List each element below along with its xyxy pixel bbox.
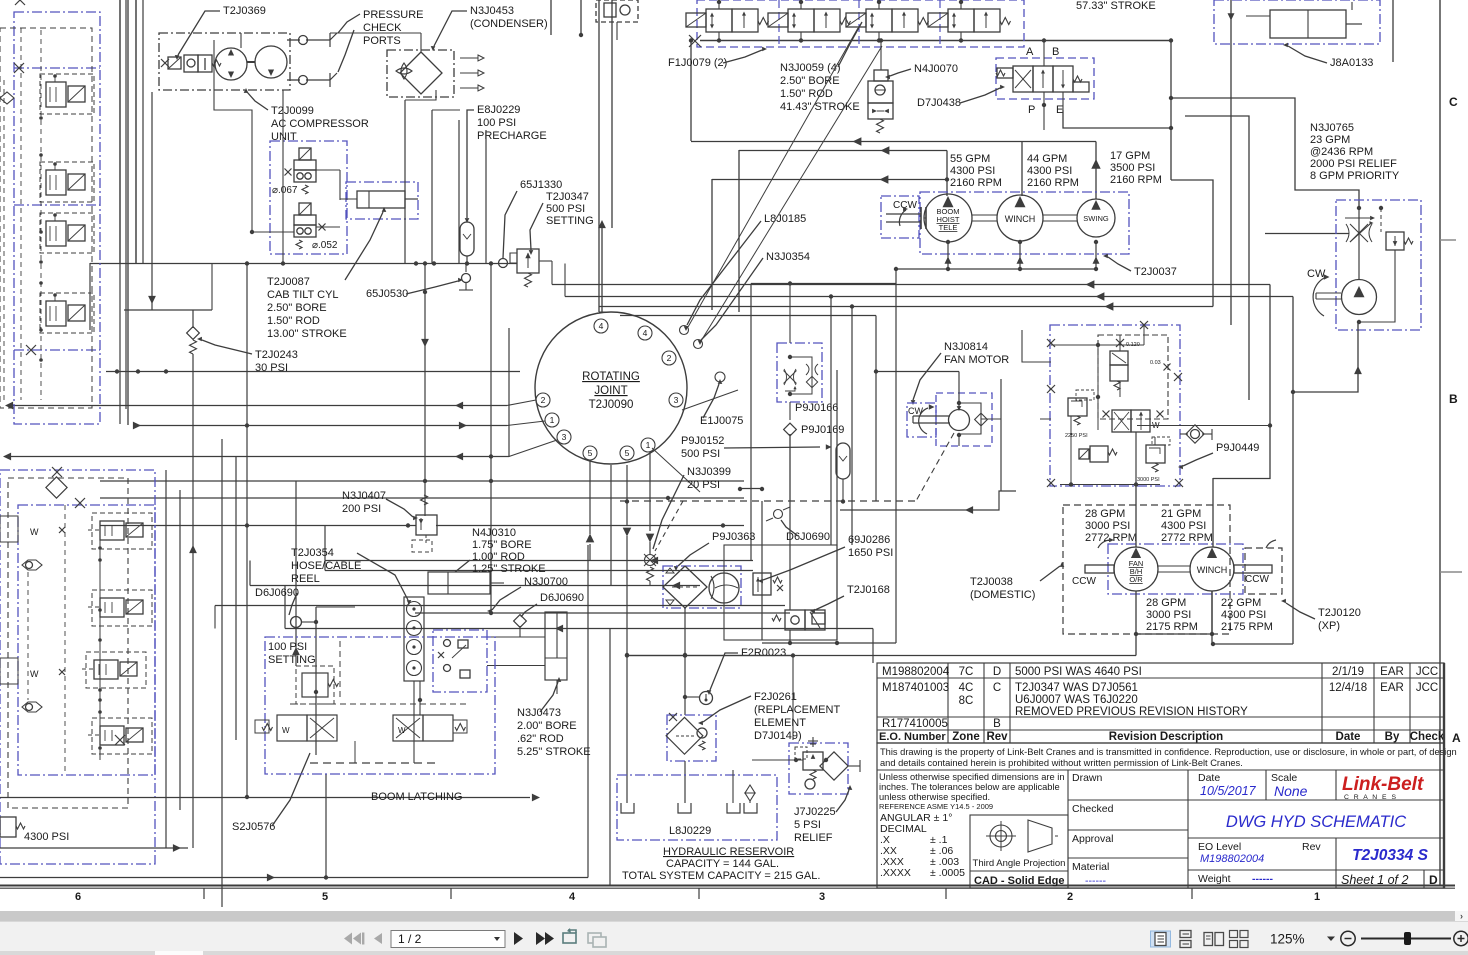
wire x316 latch <box>315 607 317 755</box>
svg-text:N3J0473: N3J0473 <box>517 707 561 719</box>
svg-text:W: W <box>30 669 39 679</box>
leader T2J0347 <box>530 203 543 250</box>
x-mark left top <box>52 467 62 477</box>
svg-text:DWG HYD SCHEMATIC: DWG HYD SCHEMATIC <box>1226 813 1406 831</box>
hex fitting 2 <box>22 702 42 712</box>
svg-text:D7J0149): D7J0149) <box>754 730 802 742</box>
svg-text:N3J0059 (4): N3J0059 (4) <box>780 62 841 74</box>
relief 69J0286 <box>753 573 771 595</box>
joint pin 4 <box>594 319 608 333</box>
svg-text:30 PSI: 30 PSI <box>255 362 288 374</box>
leader T2J0037 <box>1108 257 1131 271</box>
drawing frame bottom border <box>0 885 1455 887</box>
toolbar background <box>0 921 1468 951</box>
leader E8J0229 <box>467 110 474 218</box>
accumulator E8J0229 <box>460 222 474 256</box>
relief 4300 PSI <box>0 817 16 837</box>
wire vertical x425 <box>424 263 426 516</box>
arc CW <box>1313 278 1324 316</box>
cylinder J8A0133 box <box>1214 0 1380 44</box>
svg-text:BOOM LATCHING: BOOM LATCHING <box>371 791 462 803</box>
fan motor loop <box>959 403 981 434</box>
svg-text:U6J0007 WAS T6J0220: U6J0007 WAS T6J0220 <box>1015 694 1138 706</box>
svg-text:T2J0038: T2J0038 <box>970 576 1013 588</box>
small rect left a <box>0 516 18 542</box>
svg-text:D7J0438: D7J0438 <box>917 97 961 109</box>
leader pin3 <box>509 440 557 457</box>
flow control P9J0166 <box>784 371 797 384</box>
wire y560-630 bundle <box>325 560 753 562</box>
fan motor drain dashed <box>916 433 954 501</box>
wire mid bus y306 <box>599 306 1213 308</box>
pressure reducing valve <box>1090 446 1108 462</box>
wire bottom y877 <box>0 877 588 879</box>
wire joint top entry <box>599 311 612 313</box>
cylinder T2J0087 box <box>346 182 418 219</box>
svg-text:1 / 2: 1 / 2 <box>398 932 422 946</box>
svg-text:E8J0229: E8J0229 <box>477 104 520 116</box>
pump FAN B/H O/R <box>1114 547 1158 591</box>
ul dashed bus <box>20 28 22 400</box>
wire drop x793 <box>792 655 794 740</box>
svg-text:4300 PSI: 4300 PSI <box>950 165 995 177</box>
wire P9J0449 bottom bus <box>1060 484 1160 486</box>
wire compressor ports <box>287 39 300 41</box>
cylinder J8A0133 body <box>1270 10 1346 38</box>
svg-text:13.00" STROKE: 13.00" STROKE <box>267 328 347 340</box>
wire relief right <box>1359 250 1395 322</box>
svg-text:L8J0229: L8J0229 <box>669 825 711 837</box>
svg-text:5: 5 <box>588 448 593 458</box>
wires T2J0168 block <box>724 545 837 640</box>
wire vertical x491 <box>490 263 492 613</box>
two page layout icon <box>1204 933 1224 946</box>
cooler fan motor circle <box>709 573 739 603</box>
cylinder N3J0473 <box>545 612 567 680</box>
svg-text:Sheet 1 of 2: Sheet 1 of 2 <box>1341 873 1408 887</box>
revision table frame <box>877 663 1444 743</box>
svg-text:ELEMENT: ELEMENT <box>754 717 806 729</box>
svg-text:EAR: EAR <box>1380 682 1404 694</box>
svg-text:AC COMPRESSOR: AC COMPRESSOR <box>271 118 369 130</box>
svg-text:4300 PSI: 4300 PSI <box>1221 609 1266 621</box>
svg-text:E: E <box>1056 104 1063 116</box>
svg-text:P9J0449: P9J0449 <box>1216 442 1259 454</box>
svg-text:D6J0690: D6J0690 <box>255 587 299 599</box>
svg-text:C: C <box>1449 95 1458 109</box>
two page continuous icon <box>1230 931 1249 948</box>
title block frame <box>877 743 1444 888</box>
svg-text:2175 RPM: 2175 RPM <box>1221 621 1273 633</box>
pump shaft trio <box>886 213 921 215</box>
leader T2J0369 <box>178 11 220 55</box>
svg-text:3500 PSI: 3500 PSI <box>1110 162 1155 174</box>
valve N3J0059 #3 <box>866 9 892 32</box>
relief 3000 PSI bottom <box>1146 445 1165 463</box>
svg-text:± .0005: ± .0005 <box>930 867 965 879</box>
wire vertical x739 <box>738 150 740 312</box>
svg-text:F2J0261: F2J0261 <box>754 691 797 703</box>
wire bus y498 <box>100 497 744 499</box>
svg-text:W: W <box>398 726 406 735</box>
relief valve T2J0347 <box>517 249 539 273</box>
wire boom latch feeds <box>295 660 297 715</box>
upper-left bluebox <box>14 12 100 424</box>
wire winch drop <box>1211 591 1213 644</box>
svg-text:(DOMESTIC): (DOMESTIC) <box>970 589 1035 601</box>
valve N3J0059 #2 <box>788 9 814 32</box>
P9J0449 outer box <box>1050 325 1180 486</box>
projection symbol <box>990 825 1012 847</box>
svg-text:65J1330: 65J1330 <box>520 179 562 191</box>
svg-text:0.03: 0.03 <box>1150 360 1161 366</box>
valve D7J0438 box <box>996 58 1094 99</box>
wire pump set feeds <box>1135 591 1137 656</box>
cooler fan blades <box>711 576 738 599</box>
wire riser x222 <box>221 439 223 907</box>
svg-text:F2R0023: F2R0023 <box>741 647 786 659</box>
wire riser x1001 <box>1000 379 1002 491</box>
wire T2J0243 <box>192 354 194 848</box>
wire bus y456 <box>8 456 509 458</box>
relief valve N3J0765 <box>1386 232 1404 250</box>
svg-text:2.50" BORE: 2.50" BORE <box>267 302 327 314</box>
zoom out circle <box>1341 931 1355 945</box>
svg-text:R177410005: R177410005 <box>882 718 948 730</box>
svg-text:1: 1 <box>646 440 651 450</box>
valve cab tilt 2 <box>294 215 316 225</box>
leader T2J0168 <box>815 596 844 610</box>
leader F1J0079 <box>723 50 762 63</box>
tank port 3 <box>727 803 740 813</box>
fan motor feed <box>876 371 959 373</box>
cab tilt valve box <box>270 141 347 254</box>
plug P9J0169 <box>784 423 797 436</box>
wire y310 stub <box>124 309 212 311</box>
zone tick C-B <box>1440 239 1456 241</box>
svg-text:N3J0814: N3J0814 <box>944 341 988 353</box>
wire winch return path <box>1213 643 1293 645</box>
J7J0225 box <box>789 743 848 794</box>
pump set right dashed <box>1245 548 1282 594</box>
svg-text:4300 PSI: 4300 PSI <box>1027 165 1072 177</box>
wire J8A0133 drop long <box>1230 44 1232 325</box>
wire riser x296 <box>295 481 297 666</box>
leader F2J0261 <box>703 696 751 722</box>
svg-text:3000 PSI: 3000 PSI <box>1137 477 1160 483</box>
svg-text:5: 5 <box>625 448 630 458</box>
leader N3J0399 <box>653 475 684 549</box>
svg-text:1: 1 <box>550 415 555 425</box>
leader P9J0152 <box>724 447 820 448</box>
svg-text:T2J0120: T2J0120 <box>1318 607 1361 619</box>
leader D7J0438 <box>960 88 1000 103</box>
boom latch valve B <box>393 715 423 741</box>
svg-text:12/4/18: 12/4/18 <box>1329 682 1367 694</box>
wire pump feed drops <box>946 151 948 197</box>
svg-text:By: By <box>1385 731 1400 743</box>
svg-text:2250 PSI: 2250 PSI <box>1065 433 1088 439</box>
svg-text:2.00" BORE: 2.00" BORE <box>517 720 577 732</box>
svg-text:FAN MOTOR: FAN MOTOR <box>944 354 1009 366</box>
svg-text:CCW: CCW <box>1072 576 1096 587</box>
wire y655 bus <box>627 655 1136 657</box>
wire gauge <box>685 696 699 698</box>
wire fanmotor to manifold <box>1040 418 1051 420</box>
svg-text:W: W <box>30 527 39 537</box>
wire E port <box>1062 92 1064 110</box>
svg-text:JOINT: JOINT <box>594 385 627 397</box>
svg-text:N3J0399: N3J0399 <box>687 466 731 478</box>
compressor shaft <box>247 61 255 63</box>
svg-text:41.43" STROKE: 41.43" STROKE <box>780 101 860 113</box>
orifice .067 <box>285 169 292 176</box>
svg-text:------: ------ <box>1085 875 1106 887</box>
svg-text:T2J0334 S: T2J0334 S <box>1352 847 1428 864</box>
wire riser x876 <box>875 316 877 502</box>
svg-text:(REPLACEMENT: (REPLACEMENT <box>754 704 840 716</box>
svg-text:M198802004: M198802004 <box>1200 853 1264 865</box>
svg-text:P: P <box>1028 104 1035 116</box>
svg-text:1.00" ROD: 1.00" ROD <box>472 551 525 563</box>
svg-text:CAB TILT CYL: CAB TILT CYL <box>267 289 339 301</box>
joint pin 1 <box>641 438 655 452</box>
upper-left dashed box <box>0 28 92 408</box>
svg-text:None: None <box>1274 783 1308 799</box>
leader N3J0453 <box>434 11 467 46</box>
leader N3J0814 <box>913 353 941 400</box>
x-mark bottom left <box>115 735 125 745</box>
valve outrigger 2 <box>100 598 124 617</box>
spring T2J0347 <box>525 273 532 287</box>
svg-text:4300 PSI: 4300 PSI <box>24 831 69 843</box>
leader E1J0075 <box>703 384 719 418</box>
svg-text:WINCH: WINCH <box>1005 214 1036 224</box>
svg-text:C R A N E S: C R A N E S <box>1344 794 1398 801</box>
svg-text:Weight: Weight <box>1198 873 1231 885</box>
svg-text:.XXXX: .XXXX <box>880 867 911 879</box>
valve ul 4 <box>46 301 66 326</box>
relief 2250 PSI <box>1068 398 1087 416</box>
svg-text:T2J0099: T2J0099 <box>271 105 314 117</box>
arrow up feeder <box>598 220 606 228</box>
relief J7J0225 <box>803 752 823 770</box>
leader D6J0690 right <box>521 604 537 617</box>
leader T2J0038 <box>1040 566 1060 581</box>
wire A port <box>1043 40 1045 66</box>
leader P9J0449 <box>1183 453 1213 466</box>
wire J8A0133 feed <box>1230 0 1232 44</box>
x-marks P9J0449 <box>1047 339 1055 347</box>
svg-text:28 GPM: 28 GPM <box>1146 597 1186 609</box>
svg-text:L8J0185: L8J0185 <box>764 213 806 225</box>
svg-text:2772 RPM: 2772 RPM <box>1085 532 1137 544</box>
dashed into N3J0399 <box>655 501 683 551</box>
wire left bus v3 <box>135 0 137 263</box>
wire riser x762 <box>761 501 763 640</box>
svg-text:4300 PSI: 4300 PSI <box>1161 520 1206 532</box>
leader N4J0070 <box>890 69 911 76</box>
wire manifold staircase left <box>1022 330 1051 362</box>
wire P port <box>1043 92 1045 130</box>
wire bottom bus y655 <box>627 655 793 657</box>
tank port 1 <box>621 803 634 813</box>
wires P9J0449 <box>1119 335 1121 351</box>
valve ul 3 <box>46 221 66 246</box>
P9J0166 loop <box>790 357 812 394</box>
reel joint circles <box>407 602 422 617</box>
leader pressure check <box>338 14 360 33</box>
filter diamond left <box>46 477 67 498</box>
pressure check port symbol 2 <box>329 73 331 87</box>
boom latch dashes <box>339 641 341 700</box>
shaft links trio <box>972 214 997 216</box>
svg-text:20 PSI: 20 PSI <box>687 479 720 491</box>
wire right x1393 <box>1392 0 1394 62</box>
wire riser x896 <box>895 270 897 643</box>
wire N4J0070 up <box>880 40 882 70</box>
svg-text:57.33" STROKE: 57.33" STROKE <box>1076 0 1156 12</box>
wire vertical pair to rotating joint <box>598 0 600 312</box>
frame right border <box>1439 0 1441 886</box>
first page button (disabled) <box>344 933 364 945</box>
zoom slider <box>1361 938 1451 940</box>
filter bypass check <box>697 728 707 738</box>
wire bus y425 <box>136 425 507 427</box>
tank port 4 <box>744 803 757 813</box>
wire pump set top feeds <box>1135 486 1137 547</box>
solenoid valve P9J0449 top <box>1110 351 1128 365</box>
svg-text:2772 RPM: 2772 RPM <box>1161 532 1213 544</box>
leader T2J0087 <box>345 212 383 280</box>
arrow 17gpm <box>1091 159 1100 169</box>
cylinder T2J0087 body <box>357 191 405 208</box>
svg-text:22 GPM: 22 GPM <box>1221 597 1261 609</box>
wire vertical x247 <box>246 263 248 797</box>
svg-text:J8A0133: J8A0133 <box>1330 57 1373 69</box>
gauge F2R0023 <box>700 692 713 705</box>
condenser diamond <box>400 52 442 94</box>
svg-text:2000 PSI RELIEF: 2000 PSI RELIEF <box>1310 158 1397 170</box>
joint feed top <box>599 311 611 313</box>
svg-text:REMOVED PREVIOUS REVISION HIST: REMOVED PREVIOUS REVISION HISTORY <box>1015 706 1248 718</box>
left lower inner dashed <box>8 478 128 808</box>
x-mark filter <box>669 713 677 721</box>
orifice .052 <box>319 224 326 231</box>
svg-text:2: 2 <box>541 395 546 405</box>
svg-text:1: 1 <box>1314 891 1320 903</box>
condenser flow arrows <box>460 57 478 59</box>
svg-text:Rev: Rev <box>986 731 1008 743</box>
svg-text:T2J0347: T2J0347 <box>546 191 589 203</box>
leader D6J0690 left <box>289 593 297 615</box>
svg-text:Link-Belt: Link-Belt <box>1342 774 1424 795</box>
svg-text:4: 4 <box>599 321 604 331</box>
svg-text:Revision Description: Revision Description <box>1109 731 1223 743</box>
wire feed staircase y116 <box>1185 116 1249 400</box>
wire y283 <box>751 283 896 285</box>
cooler diamond <box>663 566 707 608</box>
joint pin 5 <box>583 446 597 460</box>
check fitting D6J0690 right <box>514 615 527 628</box>
svg-text:P9J0169: P9J0169 <box>801 424 844 436</box>
pump CCW box <box>881 196 919 238</box>
svg-text:B: B <box>993 718 1001 730</box>
leader 69J0286 <box>763 547 845 580</box>
wire condenser top <box>420 33 422 52</box>
svg-text:Drawn: Drawn <box>1072 772 1103 784</box>
wire vertical x509 <box>508 328 510 457</box>
compressor solenoid <box>168 57 181 69</box>
svg-text:(CONDENSER): (CONDENSER) <box>470 18 548 30</box>
svg-text:⌀.067: ⌀.067 <box>272 185 298 196</box>
condenser box N3J0453 <box>387 50 454 97</box>
wire compressor drop 2 <box>282 90 284 263</box>
valve N3J0059 #4 <box>948 9 974 32</box>
joint pin 3 <box>557 430 571 444</box>
rotate/page tool icon 1 <box>563 928 576 943</box>
relief 3000 dashed box <box>1152 437 1170 445</box>
wire riser x588 <box>587 545 589 878</box>
leader pin1 <box>507 421 545 426</box>
upper-left inner blue line <box>14 67 100 69</box>
leader F2R0023 <box>710 653 738 690</box>
svg-text:and details contained herein i: and details contained herein is prohibit… <box>880 758 1243 768</box>
svg-text:A: A <box>1026 46 1034 58</box>
joint pin 5 <box>620 446 634 460</box>
fan motor box blue <box>907 403 936 437</box>
svg-text:17 GPM: 17 GPM <box>1110 150 1150 162</box>
leader 65J1330 <box>503 191 517 258</box>
svg-text:N3J0700: N3J0700 <box>524 576 568 588</box>
svg-text:M198802004: M198802004 <box>882 666 950 678</box>
pump WINCH T2J0037 <box>997 195 1043 241</box>
svg-text:EO Level: EO Level <box>1198 841 1241 853</box>
svg-text:Checked: Checked <box>1072 803 1114 815</box>
wire y488 stub <box>740 488 762 490</box>
wire bottom left joins <box>0 847 188 849</box>
svg-text:23 GPM: 23 GPM <box>1310 134 1350 146</box>
valve D7J0438 springs <box>996 70 1005 76</box>
svg-text:3: 3 <box>674 395 679 405</box>
relief 2250 dashed box <box>1076 390 1094 400</box>
wire vertical x691 <box>690 40 692 141</box>
wire ul compressor feeds <box>119 0 121 424</box>
wire cab tilt <box>316 169 340 171</box>
svg-text:3: 3 <box>562 432 567 442</box>
wire vertical x405c <box>404 100 406 263</box>
svg-text:RELIEF: RELIEF <box>794 832 833 844</box>
fitting E1J0075 <box>715 372 725 382</box>
svg-text:PORTS: PORTS <box>363 35 401 47</box>
valve cab tilt 1 <box>294 160 316 170</box>
joint small fittings top right <box>680 326 689 335</box>
svg-text:(XP): (XP) <box>1318 620 1340 632</box>
title block right heavy border <box>1443 663 1445 888</box>
wire cab tilt to cyl <box>340 198 357 200</box>
svg-text:T2J0347 WAS D7J0561: T2J0347 WAS D7J0561 <box>1015 682 1138 694</box>
joint leader lines right <box>688 28 858 327</box>
date scale row <box>1188 799 1444 801</box>
AC compressor enclosure T2J0099 <box>159 33 290 90</box>
svg-text:ROTATING: ROTATING <box>582 371 640 383</box>
left module risers <box>165 470 167 848</box>
joint pin 3 <box>669 393 683 407</box>
leader L8J0185 <box>687 221 761 325</box>
svg-text:1.50" ROD: 1.50" ROD <box>267 315 320 327</box>
wire x1171 vertical <box>1170 40 1172 180</box>
svg-text:5000 PSI WAS 4640 PSI: 5000 PSI WAS 4640 PSI <box>1015 666 1142 678</box>
